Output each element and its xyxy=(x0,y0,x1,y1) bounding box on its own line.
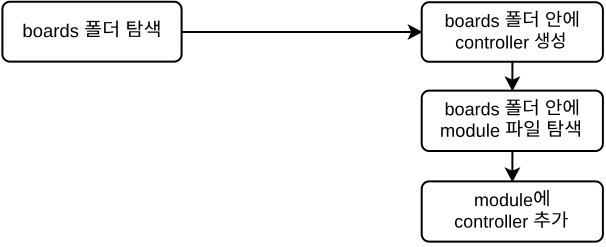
wire: box2 bottom to box3 top xyxy=(511,62,513,81)
label line1: module에 xyxy=(475,190,549,206)
wire: box1 right to box2 left xyxy=(182,31,413,33)
arrowhead into box2 xyxy=(409,25,422,38)
label line2: controller 생성 xyxy=(456,32,564,48)
arrowhead into box3 xyxy=(506,77,519,90)
process box: boards 폴더 탐색 xyxy=(2,2,181,62)
label line2: controller 추가 xyxy=(455,211,568,227)
process box: boards 폴더 안에 controller 생성 xyxy=(422,2,603,62)
label line1: boards 폴더 안에 xyxy=(446,11,578,27)
label line2: module 파일 탐색 xyxy=(441,120,580,137)
label: boards 폴더 탐색 xyxy=(24,21,160,38)
wire: box3 bottom to box4 top xyxy=(511,151,513,172)
arrowhead into box4 xyxy=(506,168,519,181)
process box: boards 폴더 안에 module 파일 탐색 xyxy=(422,91,603,151)
process box: module에 controller 추가 xyxy=(422,181,603,241)
label line1: boards 폴더 안에 xyxy=(446,99,578,115)
